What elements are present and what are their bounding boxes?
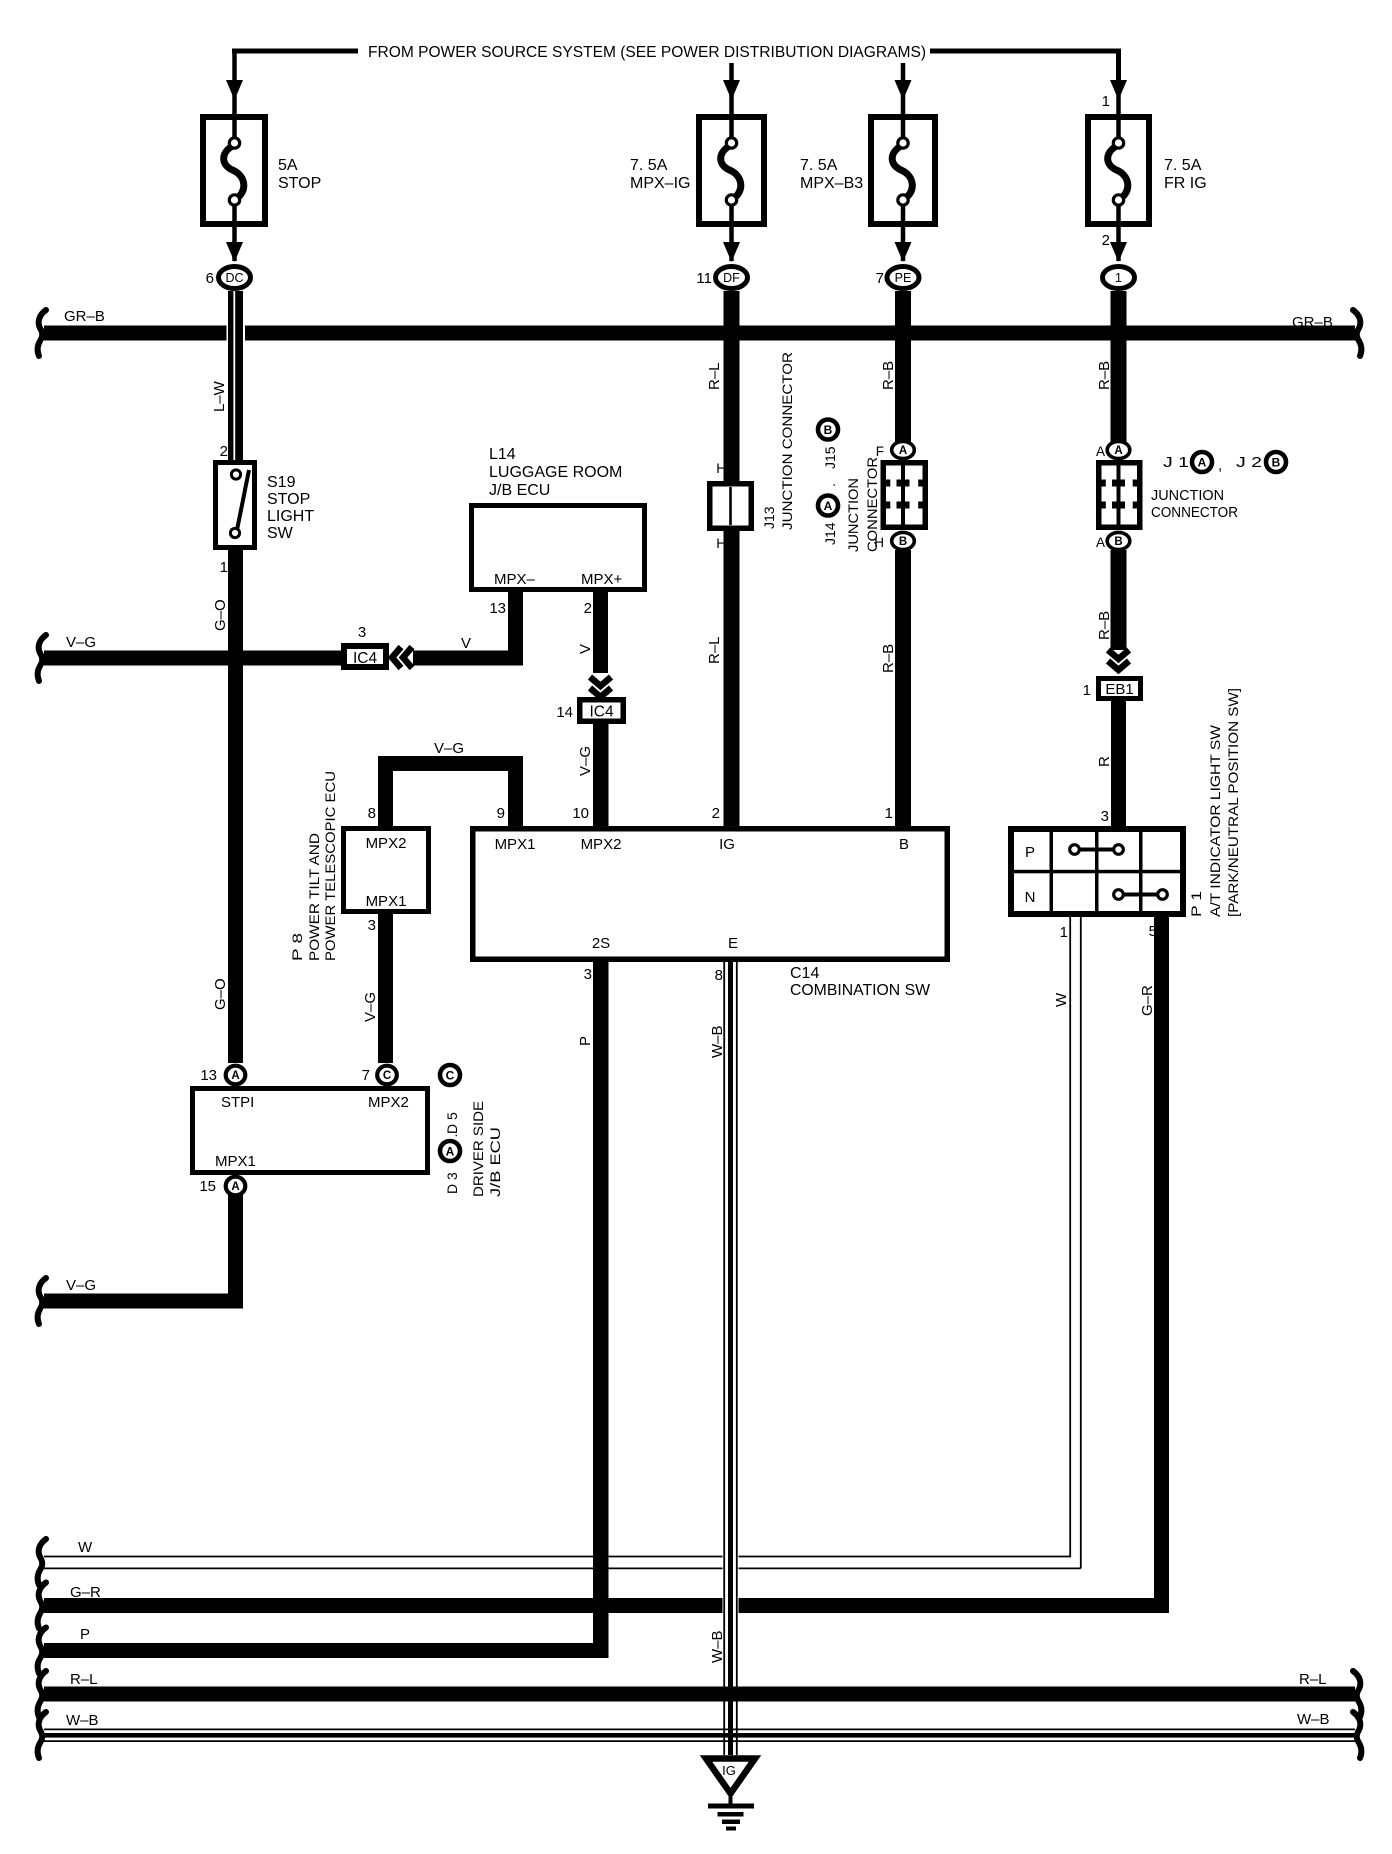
svg-text:MPX1: MPX1 <box>366 893 407 910</box>
wire W-B bus <box>44 1728 1355 1730</box>
svg-text:C: C <box>383 1070 391 1082</box>
wire W from P1 pin 1 to W bus <box>1069 917 1071 1557</box>
arrow into EB1 <box>1108 650 1129 659</box>
svg-text:3: 3 <box>1101 808 1109 825</box>
svg-text:CONNECTOR: CONNECTOR <box>1151 504 1238 521</box>
svg-text:8: 8 <box>368 805 376 822</box>
svg-text:3: 3 <box>368 917 376 934</box>
svg-text:J 1: J 1 <box>1163 454 1189 471</box>
svg-text:,: , <box>1218 457 1222 474</box>
svg-text:R–L: R–L <box>70 1671 98 1688</box>
connector 7 PE <box>887 267 919 289</box>
wire V-G from IC4 to C14 MPX2 <box>593 724 609 826</box>
svg-text:A: A <box>1114 445 1122 457</box>
svg-text:R–B: R–B <box>1096 361 1113 390</box>
wire W bus <box>44 1556 1070 1558</box>
svg-text:JUNCTION CONNECTOR: JUNCTION CONNECTOR <box>779 352 795 530</box>
svg-text:GR–B: GR–B <box>1292 314 1333 331</box>
wire R-B from fuse FR IG to J1 <box>1111 291 1127 442</box>
svg-text:LIGHT: LIGHT <box>267 508 314 525</box>
wire R-L from connector DF to J13 <box>724 291 740 481</box>
svg-text:W–B: W–B <box>709 1630 726 1663</box>
svg-text:JUNCTION: JUNCTION <box>845 478 861 552</box>
wire from power source (left segment) <box>232 49 358 54</box>
wire feed to fuse FR IG <box>1116 70 1121 114</box>
label D 3 (A), D 5 (C) <box>440 1065 460 1085</box>
svg-text:COMBINATION SW: COMBINATION SW <box>790 982 931 999</box>
wire P bus <box>44 1643 609 1658</box>
switch P1 A/T INDICATOR LIGHT SW <box>1011 829 1183 914</box>
svg-text:B: B <box>899 536 907 548</box>
svg-text:B: B <box>1114 536 1122 548</box>
wire G-R from P1 pin 5 to G-R bus <box>1154 917 1169 1613</box>
svg-text:V: V <box>461 635 471 652</box>
svg-text:GR–B: GR–B <box>64 308 105 325</box>
svg-text:R–B: R–B <box>1096 611 1113 640</box>
svg-text:FROM POWER SOURCE SYSTEM (SEE: FROM POWER SOURCE SYSTEM (SEE POWER DIST… <box>368 44 926 61</box>
svg-text:H: H <box>716 461 726 476</box>
svg-text:V–G: V–G <box>362 992 379 1022</box>
svg-text:EB1: EB1 <box>1105 681 1133 698</box>
svg-text:D 5: D 5 <box>444 1112 460 1134</box>
svg-text:DF: DF <box>723 271 740 285</box>
svg-text:STPI: STPI <box>221 1094 254 1111</box>
N row contact <box>1119 893 1163 897</box>
wire V from L14 pin 2 to IC4 <box>593 592 608 673</box>
svg-text:7. 5A: 7. 5A <box>1164 157 1202 174</box>
arrow into IC4 <box>392 647 401 668</box>
svg-text:2: 2 <box>584 600 592 617</box>
wire from S19 ends at connector A (13) <box>226 1066 246 1085</box>
svg-text:R–L: R–L <box>706 636 723 664</box>
svg-text:5A: 5A <box>278 157 298 174</box>
svg-text:1: 1 <box>1102 93 1110 110</box>
svg-text:IC4: IC4 <box>589 704 614 721</box>
svg-text:J14: J14 <box>822 522 838 545</box>
svg-text:B: B <box>1272 455 1281 469</box>
wire V-G from STPI A(15) to left edge <box>228 1195 243 1309</box>
svg-text:MPX+: MPX+ <box>581 571 623 588</box>
svg-text:L–W: L–W <box>211 380 228 412</box>
svg-text:G–R: G–R <box>1139 985 1156 1016</box>
wire L-W from connector DC to S19 (with white core stripe) <box>227 291 246 460</box>
svg-text:A: A <box>231 1070 239 1082</box>
svg-text:A: A <box>1096 444 1105 459</box>
wire feed to fuse STOP <box>232 53 237 114</box>
wire G-R bus <box>44 1598 1169 1613</box>
svg-text:IC4: IC4 <box>353 650 378 667</box>
svg-text:FR IG: FR IG <box>1164 175 1207 192</box>
svg-text:MPX2: MPX2 <box>366 835 407 852</box>
svg-text:A/T INDICATOR LIGHT SW: A/T INDICATOR LIGHT SW <box>1207 724 1223 917</box>
svg-text:V: V <box>577 644 594 654</box>
svg-text:R–B: R–B <box>880 361 897 390</box>
wire R-L bus <box>44 1687 1355 1702</box>
svg-text:CONNECTOR: CONNECTOR <box>864 457 880 552</box>
fuse 7.5A MPX-B3 <box>871 117 935 224</box>
svg-text:1: 1 <box>1115 271 1122 285</box>
svg-text:1: 1 <box>885 805 893 822</box>
wire from power source (right segment) <box>930 49 1121 54</box>
svg-text:MPX1: MPX1 <box>215 1153 256 1170</box>
svg-text:STOP: STOP <box>278 175 321 192</box>
connector IC4 (pin 14) <box>580 700 624 722</box>
svg-text:R–L: R–L <box>706 362 723 390</box>
svg-text:B: B <box>899 836 909 853</box>
svg-text:G–R: G–R <box>70 1584 101 1601</box>
arrow into IC4 (14) <box>590 677 611 686</box>
svg-text:R: R <box>1096 756 1113 767</box>
svg-text:R–L: R–L <box>1299 1671 1327 1688</box>
svg-text:DRIVER SIDE: DRIVER SIDE <box>470 1101 486 1197</box>
svg-text:V–G: V–G <box>577 746 594 776</box>
svg-text:B: B <box>824 423 833 437</box>
svg-text:J15: J15 <box>822 446 838 469</box>
svg-text:P 8: P 8 <box>289 933 305 961</box>
svg-text:W–B: W–B <box>709 1025 726 1058</box>
svg-text:POWER TILT AND: POWER TILT AND <box>306 833 322 961</box>
wire V-G from P8 pin 3 to STPI C <box>378 914 393 1063</box>
svg-text:A: A <box>1198 455 1207 469</box>
svg-text:C14: C14 <box>790 965 819 982</box>
svg-text:J13: J13 <box>761 506 777 529</box>
wire R from EB1 to P1 pin 3 <box>1111 701 1126 826</box>
connector IC4 (pin 3) <box>344 646 386 667</box>
svg-text:W–B: W–B <box>1297 1711 1330 1728</box>
connector A (15) <box>226 1177 246 1196</box>
svg-text:DC: DC <box>225 271 243 285</box>
svg-text:IG: IG <box>719 836 735 853</box>
svg-text:R–B: R–B <box>880 644 897 673</box>
svg-text:MPX–IG: MPX–IG <box>630 175 690 192</box>
wire feed to fuse MPX-IG <box>729 63 734 114</box>
svg-text:W–B: W–B <box>66 1712 99 1729</box>
svg-text:C: C <box>446 1068 455 1082</box>
svg-text:9: 9 <box>497 805 505 822</box>
svg-text:JUNCTION: JUNCTION <box>1151 487 1224 504</box>
connector 11 DF <box>716 267 748 289</box>
continuation mark right GR-B <box>1353 310 1361 356</box>
svg-text:MPX–B3: MPX–B3 <box>800 175 863 192</box>
svg-text:D 3: D 3 <box>444 1172 460 1194</box>
svg-text:6: 6 <box>206 270 214 287</box>
svg-text:J 2: J 2 <box>1236 454 1262 471</box>
svg-text:7. 5A: 7. 5A <box>630 157 668 174</box>
svg-text:P 1: P 1 <box>1188 891 1204 917</box>
svg-text:7: 7 <box>876 270 884 287</box>
svg-text:V–G: V–G <box>66 634 96 651</box>
svg-text:STOP: STOP <box>267 491 310 508</box>
svg-text:3: 3 <box>358 624 366 641</box>
svg-text:MPX1: MPX1 <box>495 836 536 853</box>
svg-text:E: E <box>728 935 738 952</box>
wire V from arrow to L14 pin 13 <box>413 651 523 666</box>
fuse 5A STOP <box>203 117 265 224</box>
svg-text:8: 8 <box>715 967 723 984</box>
wire R-B from J1 B to EB1 <box>1111 550 1127 650</box>
svg-text:2S: 2S <box>592 935 610 952</box>
svg-text:PE: PE <box>895 271 912 285</box>
continuation mark left V-G <box>38 635 46 681</box>
fuse 7.5A MPX-IG <box>699 117 764 224</box>
svg-text:14: 14 <box>556 704 573 721</box>
connector EB1 <box>1099 679 1141 699</box>
svg-text:V–G: V–G <box>66 1277 96 1294</box>
svg-text:1: 1 <box>220 559 228 576</box>
wire P from C14 2S to P bus <box>593 962 609 1658</box>
svg-text:N: N <box>1025 889 1036 906</box>
wire GR-B bus <box>44 326 1355 341</box>
connector 6 DC <box>219 267 251 289</box>
ECU P8 POWER TILT AND POWER TELESCOPIC ECU <box>344 829 429 912</box>
svg-text:A: A <box>1096 535 1105 550</box>
switch S19 STOP LIGHT SW <box>216 463 255 548</box>
wire R-L from J13 to C14 IG <box>724 531 740 826</box>
svg-text:11: 11 <box>696 270 712 287</box>
svg-text:3: 3 <box>584 966 592 983</box>
svg-text:2: 2 <box>1102 232 1110 249</box>
svg-text:G–O: G–O <box>212 978 229 1010</box>
svg-text:10: 10 <box>572 805 589 822</box>
svg-text:13: 13 <box>200 1067 217 1084</box>
connector C (7) <box>377 1066 397 1085</box>
svg-text:A: A <box>824 499 833 513</box>
continuation mark left GR-B <box>38 310 46 356</box>
svg-text:L14: L14 <box>489 446 516 463</box>
svg-text:S19: S19 <box>267 474 296 491</box>
svg-text:J/B ECU: J/B ECU <box>487 1127 503 1197</box>
svg-text:A: A <box>231 1181 239 1193</box>
wire feed to fuse MPX-B3 <box>901 63 906 114</box>
switch C14 COMBINATION SW <box>473 829 948 960</box>
svg-text:A: A <box>899 445 907 457</box>
ECU STPI/MPX block (driver side J/B ECU) <box>193 1089 428 1173</box>
svg-text:.: . <box>444 1134 460 1138</box>
svg-text:MPX2: MPX2 <box>581 836 622 853</box>
wire V-G bus <box>44 651 341 666</box>
svg-text:P: P <box>577 1036 594 1046</box>
svg-text:MPX–: MPX– <box>494 571 536 588</box>
svg-text:2: 2 <box>220 443 228 460</box>
svg-text:A: A <box>446 1144 455 1158</box>
wire R-B from connector PE to J14 <box>895 291 911 442</box>
svg-text:J/B ECU: J/B ECU <box>489 482 550 499</box>
svg-text:V–G: V–G <box>434 740 464 757</box>
svg-text:LUGGAGE ROOM: LUGGAGE ROOM <box>489 464 622 481</box>
ground IG <box>706 1759 755 1794</box>
connector 1 (FR IG) <box>1103 267 1135 289</box>
svg-text:G–O: G–O <box>212 599 229 631</box>
svg-text:W: W <box>78 1539 93 1556</box>
svg-text:P: P <box>80 1626 90 1643</box>
svg-text:W: W <box>1053 992 1070 1007</box>
svg-text:IG: IG <box>722 1763 736 1778</box>
svg-text:[PARK/NEUTRAL POSITION SW]: [PARK/NEUTRAL POSITION SW] <box>1225 688 1241 917</box>
P row contact <box>1075 848 1119 852</box>
svg-text:F: F <box>876 444 884 459</box>
svg-text:7: 7 <box>362 1067 370 1084</box>
wire W-B from C14 E to IG ground <box>723 962 739 1686</box>
svg-text:MPX2: MPX2 <box>368 1094 409 1111</box>
svg-text:POWER TELESCOPIC ECU: POWER TELESCOPIC ECU <box>322 771 338 961</box>
wire R-B from J14 B to C14 B <box>895 550 911 826</box>
svg-text:13: 13 <box>489 600 506 617</box>
svg-text:SW: SW <box>267 525 294 542</box>
svg-text:2: 2 <box>712 805 720 822</box>
svg-text:1: 1 <box>1060 924 1068 941</box>
svg-text:.: . <box>822 483 838 487</box>
fuse 7.5A FR IG <box>1088 117 1149 224</box>
svg-text:1: 1 <box>1083 682 1091 699</box>
wire G-O from S19 down to STPI connector A <box>228 550 243 1063</box>
svg-text:P: P <box>1025 844 1035 861</box>
svg-text:15: 15 <box>199 1178 216 1195</box>
svg-text:7. 5A: 7. 5A <box>800 157 838 174</box>
